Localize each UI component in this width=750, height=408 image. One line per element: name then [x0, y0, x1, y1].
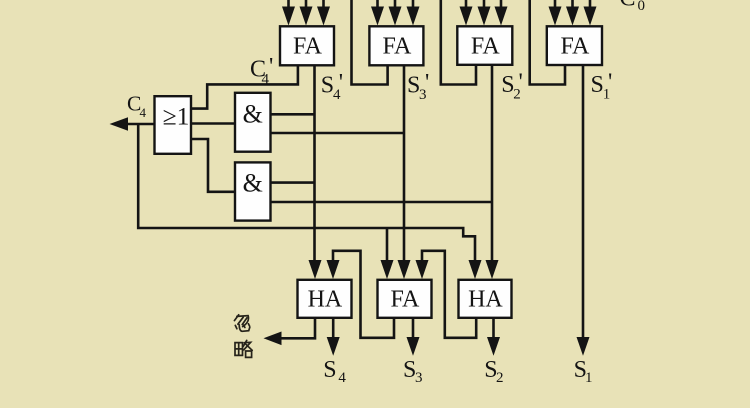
svg-text:0: 0: [638, 0, 646, 14]
svg-text:FA: FA: [293, 34, 323, 60]
svg-text:4: 4: [262, 72, 270, 88]
svg-text:&: &: [243, 99, 263, 128]
svg-text:≥1: ≥1: [163, 101, 190, 130]
svg-text:FA: FA: [382, 34, 412, 60]
svg-text:&: &: [243, 169, 263, 198]
svg-text:4: 4: [140, 105, 147, 120]
svg-text:1: 1: [603, 87, 611, 103]
svg-text:2: 2: [513, 87, 521, 103]
svg-text:3: 3: [415, 370, 423, 386]
svg-text:FA: FA: [560, 34, 590, 60]
svg-text:3: 3: [419, 87, 427, 103]
svg-text:4: 4: [338, 370, 346, 386]
svg-text:2: 2: [496, 370, 504, 386]
svg-text:HA: HA: [468, 287, 503, 313]
svg-text:FA: FA: [390, 287, 420, 313]
svg-text:HA: HA: [308, 287, 343, 313]
svg-text:4: 4: [333, 87, 341, 103]
svg-text:1: 1: [585, 370, 593, 386]
svg-text:FA: FA: [471, 34, 501, 60]
svg-text:C: C: [620, 0, 636, 12]
svg-text:': ': [269, 54, 273, 80]
svg-text:S: S: [323, 357, 336, 383]
